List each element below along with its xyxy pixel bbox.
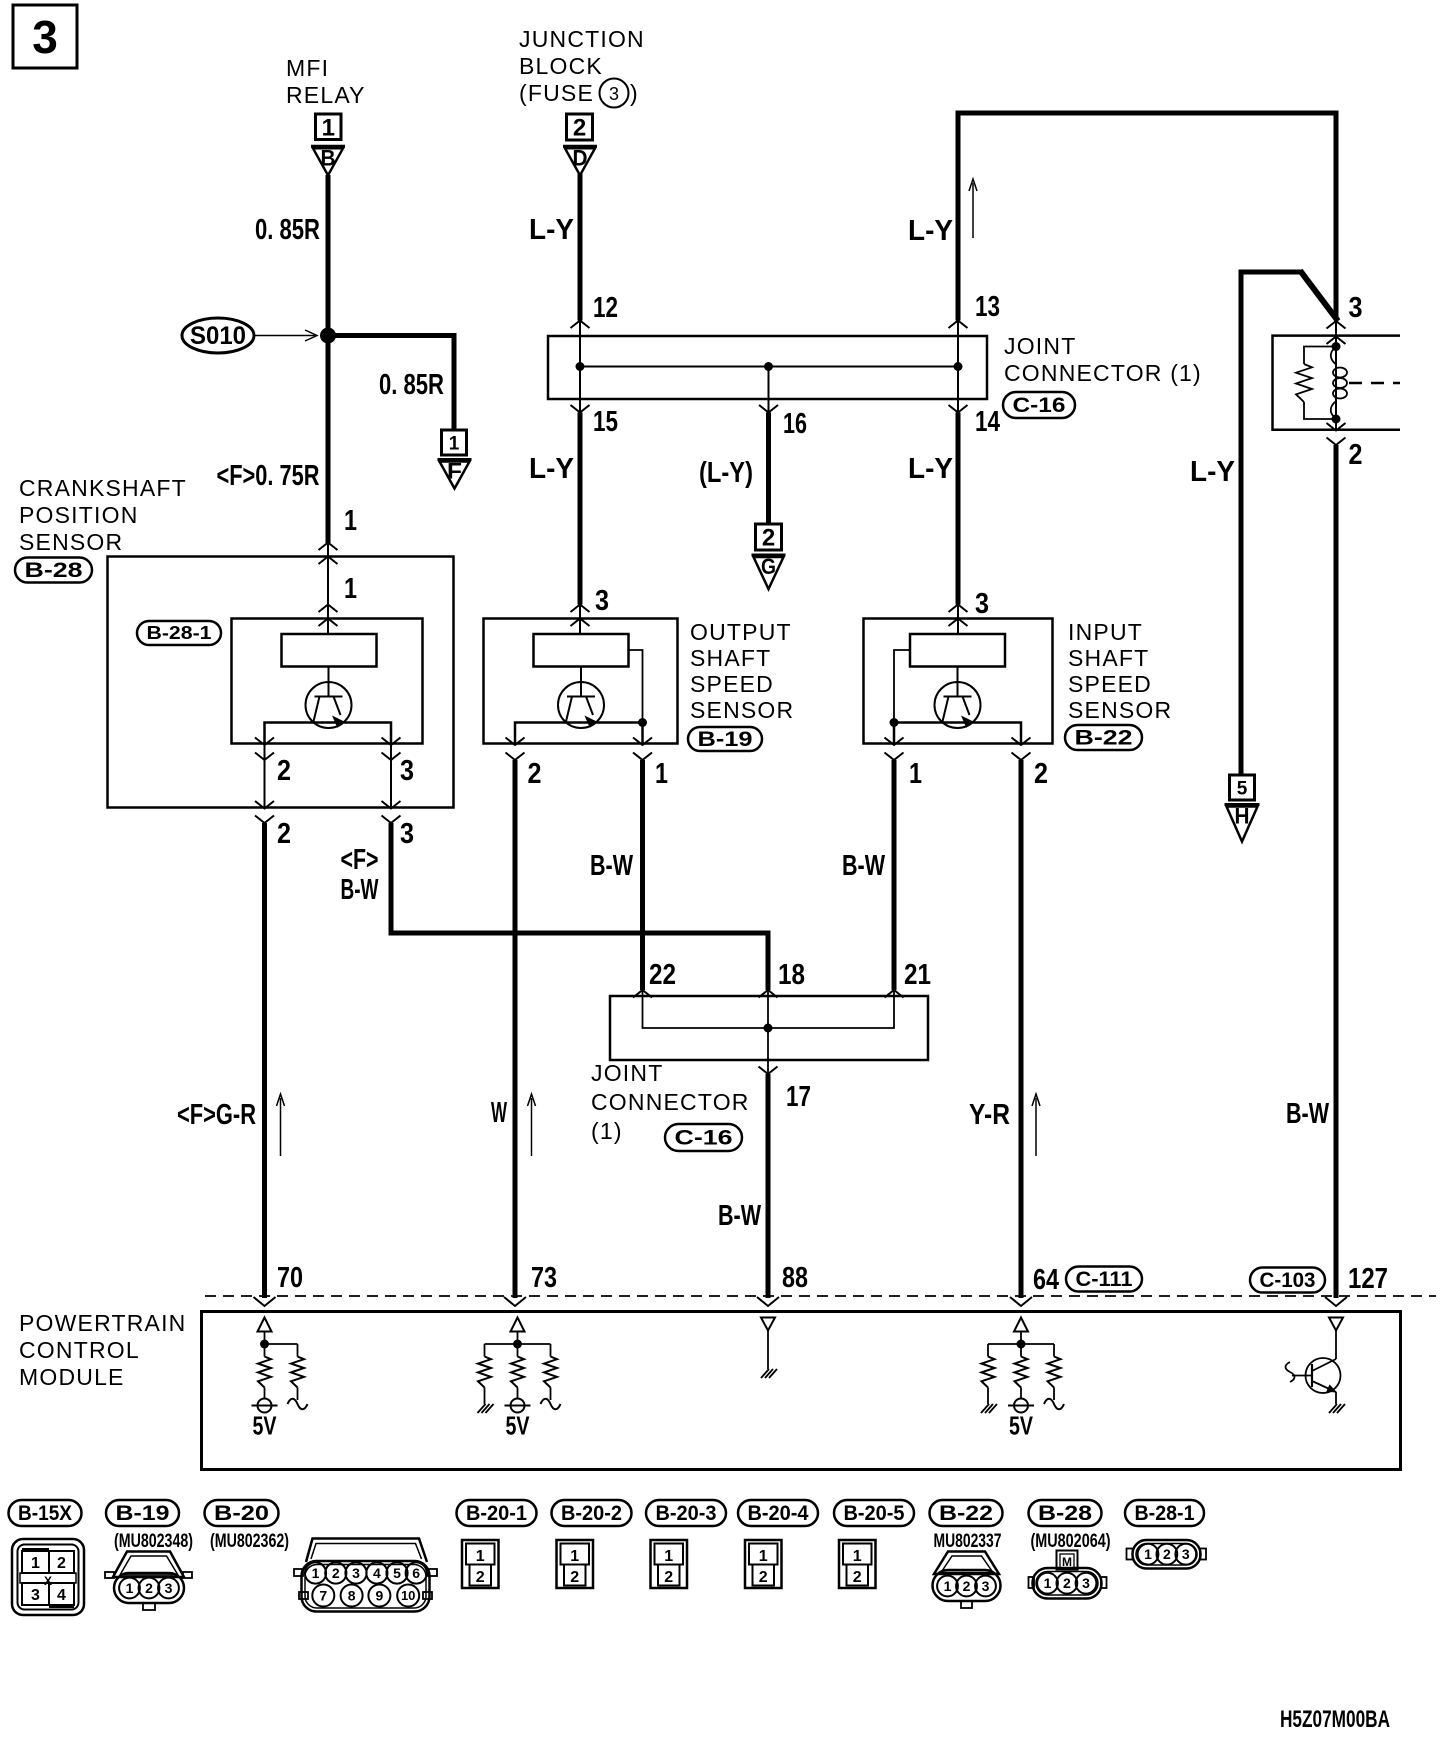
- svg-text:B-20-4: B-20-4: [748, 1502, 809, 1525]
- svg-text:1: 1: [1044, 1575, 1052, 1591]
- solenoid internal wire: [1335, 321, 1337, 430]
- svg-text:2: 2: [277, 755, 291, 787]
- B-20-3 pill and face view: [646, 1500, 726, 1526]
- svg-text:64: 64: [1033, 1264, 1059, 1296]
- wire B-W output pin1 to JC2 pin 22: [640, 760, 645, 990]
- pin 2 chevrons at B-28-1 bottom: [255, 738, 274, 746]
- pin 127 chevron: [1325, 1297, 1347, 1306]
- svg-text:2: 2: [57, 1555, 66, 1572]
- joint connector (1) C-16 lower box: [610, 996, 928, 1060]
- MFI relay triangle B: [311, 145, 345, 175]
- OUTPUT SHAFT SPEED SENSOR caption: [690, 619, 794, 723]
- svg-text:2: 2: [332, 1565, 340, 1581]
- junction dot pin1 (B-22): [890, 718, 899, 727]
- JOINT CONNECTOR (1) caption (lower): [591, 1060, 750, 1144]
- svg-text:1: 1: [322, 114, 335, 141]
- B-20-2 pill and face view: [552, 1500, 632, 1526]
- wire B-W input pin1 to JC2 pin 21: [892, 760, 897, 990]
- pin 1 chevrons at B-28-1 inner box top: [319, 605, 338, 613]
- svg-text:(MU802064): (MU802064): [1031, 1531, 1111, 1552]
- junction block triangle D: [563, 145, 597, 175]
- wire L-Y riser to JC1 pin 13 and top feed: [958, 113, 1336, 321]
- svg-text:73: 73: [531, 1262, 557, 1294]
- svg-text:B-19: B-19: [698, 728, 753, 751]
- svg-text:SENSOR: SENSOR: [19, 529, 123, 555]
- pin 3 chevrons at B-22 box top: [949, 605, 968, 613]
- svg-text:G: G: [761, 554, 776, 579]
- PCM pin127 driver transistor Q: [1286, 1318, 1346, 1414]
- sensor internal bottom wire (B-19): [515, 723, 643, 744]
- svg-text:1: 1: [570, 1548, 579, 1565]
- JC1 bus dot right: [954, 362, 963, 371]
- svg-text:MU802337: MU802337: [934, 1531, 1002, 1552]
- MFI relay connector box 1: [316, 114, 342, 141]
- svg-text:17: 17: [786, 1081, 811, 1113]
- svg-text:L-Y: L-Y: [529, 214, 574, 246]
- B-15X pill: [9, 1500, 82, 1526]
- connector B-28-1 face view: [1127, 1540, 1207, 1569]
- triangle F: [438, 459, 472, 489]
- C-103 pill: [1250, 1268, 1325, 1293]
- svg-text:B-19: B-19: [116, 1502, 170, 1525]
- pin 13 chevron: [949, 321, 968, 329]
- svg-text:1: 1: [344, 573, 357, 605]
- svg-text:MFI: MFI: [286, 55, 329, 81]
- PCM interface dashed line: [205, 1295, 1436, 1297]
- joint connector (1) C-16 box: [548, 336, 987, 399]
- flow arrow (up) next to riser: [969, 179, 977, 238]
- wire W output pin2 to PCM pin 73: [513, 760, 518, 1298]
- svg-text:1: 1: [664, 1548, 673, 1565]
- svg-text:B: B: [321, 145, 336, 170]
- svg-text:SHAFT: SHAFT: [690, 645, 771, 671]
- svg-text:(1): (1): [591, 1118, 623, 1144]
- pin 3 chevrons at B-28-1 bottom: [382, 738, 401, 746]
- crankshaft position sensor B-28 outer box: [108, 557, 454, 808]
- triangle G: [752, 554, 786, 589]
- svg-text:B-28-1: B-28-1: [147, 623, 212, 643]
- B-28-1 pill: [137, 621, 221, 645]
- svg-text:L-Y: L-Y: [908, 453, 953, 485]
- svg-text:B-20-2: B-20-2: [561, 1502, 622, 1525]
- svg-text:Y-R: Y-R: [969, 1099, 1010, 1131]
- svg-text:(MU802362): (MU802362): [210, 1531, 289, 1552]
- PCM pin64 input network with 5V reference and ground: [981, 1318, 1064, 1441]
- svg-text:1: 1: [655, 758, 668, 790]
- hall sensor symbol (B-19): [558, 682, 604, 728]
- svg-text:21: 21: [904, 959, 931, 991]
- svg-text:B-28: B-28: [1038, 1502, 1092, 1525]
- svg-text:5: 5: [393, 1565, 401, 1581]
- JC1 internal bus line: [579, 366, 958, 368]
- connector B-22 face view: [933, 1552, 1001, 1609]
- pin 3 chevrons at solenoid box top: [1327, 321, 1346, 329]
- sensor internal bottom wire (B-22): [894, 723, 1021, 744]
- svg-text:3: 3: [32, 11, 58, 63]
- svg-text:2: 2: [145, 1580, 153, 1596]
- svg-text:JOINT: JOINT: [591, 1060, 663, 1086]
- POWERTRAIN CONTROL MODULE caption: [19, 1310, 186, 1390]
- wire pin3 inside B-22: [957, 605, 959, 635]
- svg-text:1: 1: [944, 1578, 952, 1594]
- flow arrow (up) Y-R: [1032, 1094, 1040, 1156]
- svg-text:SENSOR: SENSOR: [690, 697, 794, 723]
- svg-text:CONNECTOR: CONNECTOR: [591, 1089, 750, 1115]
- svg-text:0. 85R: 0. 85R: [379, 369, 444, 401]
- sensor element block (B-19): [534, 634, 629, 667]
- pin 2 wire between boxes: [264, 745, 266, 808]
- connector box 1 (to F): [442, 430, 467, 455]
- svg-text:POSITION: POSITION: [19, 502, 139, 528]
- wire element to sensor circle (B-19): [580, 667, 582, 698]
- output shaft speed sensor B-19 box: [484, 619, 678, 744]
- JC1 bus dot mid: [764, 362, 773, 371]
- solenoid bottom dot: [1332, 415, 1341, 424]
- MFI RELAY caption: [286, 55, 366, 108]
- svg-text:B-W: B-W: [341, 874, 379, 906]
- solenoid dashed actuator link: [1349, 382, 1400, 385]
- svg-text:SENSOR: SENSOR: [1068, 697, 1172, 723]
- powertrain control module box: [202, 1312, 1401, 1470]
- pin 1 chevrons at B-22 bottom: [885, 738, 904, 746]
- wire L-Y from JC1 pin15 to output shaft speed sensor pin 3: [578, 413, 583, 605]
- sensor element block (B-22): [910, 634, 1005, 667]
- B-22 pill (legend): [930, 1500, 1003, 1526]
- svg-text:1: 1: [909, 758, 922, 790]
- JC2 internal wires: [643, 990, 895, 1028]
- svg-text:1: 1: [312, 1565, 320, 1581]
- svg-text:B-28-1: B-28-1: [1135, 1502, 1195, 1525]
- svg-text:1: 1: [759, 1548, 768, 1565]
- wire label <F> B-W: [341, 844, 379, 906]
- svg-text:<F>G-R: <F>G-R: [177, 1099, 256, 1131]
- svg-text:18: 18: [778, 959, 805, 991]
- pin 18 chevron: [759, 990, 778, 998]
- svg-text:3: 3: [1349, 292, 1363, 324]
- svg-text:L-Y: L-Y: [1190, 456, 1235, 488]
- svg-text:B-20: B-20: [214, 1502, 269, 1525]
- pin 16 chevron: [759, 405, 778, 413]
- connector B-19 face view: [105, 1552, 192, 1611]
- pin 88 chevron: [757, 1297, 779, 1306]
- svg-text:2: 2: [759, 1569, 768, 1586]
- svg-text:H5Z07M00BA: H5Z07M00BA: [1280, 1706, 1390, 1733]
- svg-text:SPEED: SPEED: [1068, 671, 1152, 697]
- svg-text:D: D: [573, 145, 588, 170]
- junction dot pin1 (B-19): [638, 718, 647, 727]
- pin 3 chevrons at B-19 box top: [571, 605, 590, 613]
- svg-text:16: 16: [783, 408, 807, 440]
- pin 3 wire between boxes: [390, 745, 392, 808]
- wire B-W JC2 pin17 to PCM pin 88: [766, 1074, 771, 1298]
- pin 70 chevron: [254, 1297, 276, 1306]
- svg-text:3: 3: [1182, 1546, 1190, 1562]
- solenoid coil loops: [1331, 347, 1347, 420]
- pin 3 chevrons at B-28 outer bottom: [382, 801, 401, 809]
- svg-text:POWERTRAIN: POWERTRAIN: [19, 1310, 186, 1336]
- svg-text:5V: 5V: [1009, 1411, 1033, 1441]
- pin 15 chevron: [571, 405, 590, 413]
- wire 0.75R from splice to crankshaft position sensor: [326, 336, 331, 544]
- connector B-15X face view: [12, 1539, 84, 1615]
- svg-text:0. 85R: 0. 85R: [255, 214, 320, 246]
- svg-text:1: 1: [449, 433, 460, 454]
- B-20-4 pill and face view: [738, 1500, 818, 1526]
- svg-text:3: 3: [1082, 1575, 1090, 1591]
- svg-text:22: 22: [649, 959, 676, 991]
- B-20-1 pill and face view: [457, 1500, 537, 1526]
- pin 21 chevron: [885, 990, 904, 998]
- svg-text:2: 2: [277, 818, 291, 850]
- svg-text:B-20-1: B-20-1: [466, 1502, 527, 1525]
- connector B-20 face view: [294, 1539, 437, 1612]
- pin 2 chevrons at solenoid box bottom: [1327, 423, 1346, 431]
- pin 22 chevron: [633, 990, 652, 998]
- junction dot S010: [320, 328, 336, 344]
- svg-text:B-W: B-W: [718, 1200, 761, 1232]
- junction block connector box 2: [567, 114, 593, 142]
- B-20-5 pill and face view: [834, 1500, 914, 1526]
- wire element to sensor circle (B-28): [328, 667, 330, 698]
- element tap wire to pin1 (B-22): [894, 650, 910, 723]
- svg-text:3: 3: [165, 1580, 173, 1596]
- svg-text:6: 6: [412, 1565, 420, 1581]
- INPUT SHAFT SPEED SENSOR caption: [1068, 619, 1172, 723]
- svg-text:CRANKSHAFT: CRANKSHAFT: [19, 475, 187, 501]
- svg-text:JOINT: JOINT: [1004, 333, 1076, 359]
- pin 1 chevrons at B-19 bottom: [633, 738, 652, 746]
- svg-text:5V: 5V: [253, 1411, 277, 1441]
- wire pin3 inside B-19: [579, 605, 581, 635]
- svg-text:F: F: [447, 459, 462, 484]
- svg-text:B-22: B-22: [1075, 727, 1133, 750]
- svg-text:5: 5: [1237, 778, 1248, 799]
- PCM pin88 internal ground: [761, 1318, 777, 1379]
- svg-text:BLOCK: BLOCK: [519, 53, 603, 79]
- pin 2 chevrons at B-22 bottom: [1012, 738, 1031, 746]
- svg-text:88: 88: [782, 1262, 808, 1294]
- svg-text:2: 2: [570, 1569, 579, 1586]
- wire L-Y diagonal feed to solenoid pin 3: [1241, 272, 1302, 775]
- svg-text:C-16: C-16: [675, 1127, 733, 1150]
- B-22 pill: [1065, 725, 1142, 750]
- svg-text:1: 1: [476, 1548, 485, 1565]
- svg-text:L-Y: L-Y: [908, 215, 953, 247]
- pin 2 chevrons at B-28 outer bottom: [255, 801, 274, 809]
- svg-text:1: 1: [1144, 1546, 1152, 1562]
- splice S010 symbol: [182, 318, 254, 353]
- JC1 pin13-14 internal wire: [957, 321, 959, 414]
- C-111 pill: [1066, 1267, 1142, 1292]
- svg-text:9: 9: [376, 1588, 384, 1604]
- svg-text:2: 2: [762, 525, 775, 552]
- JUNCTION BLOCK caption: [519, 26, 645, 108]
- wire L-Y from JC1 pin14 to input shaft speed sensor pin 3: [956, 413, 961, 605]
- B-28-1 inner box: [232, 619, 423, 744]
- svg-text:(FUSE: (FUSE: [519, 80, 594, 106]
- connector box 2 (to G): [756, 524, 782, 552]
- svg-text:H: H: [1235, 804, 1250, 829]
- svg-text:INPUT: INPUT: [1068, 619, 1143, 645]
- flow arrow (up) G-R: [277, 1094, 285, 1156]
- C-16 pill (lower): [665, 1124, 742, 1151]
- B-19 pill: [106, 1500, 179, 1526]
- svg-text:7: 7: [319, 1588, 327, 1604]
- CRANKSHAFT POSITION SENSOR caption: [19, 475, 187, 555]
- JC1 pin12-15 internal wire: [579, 321, 581, 414]
- svg-text:1: 1: [126, 1580, 134, 1596]
- svg-text:RELAY: RELAY: [286, 82, 366, 108]
- JC2 bus dot: [764, 1024, 773, 1033]
- JOINT CONNECTOR (1) caption: [1004, 333, 1202, 386]
- pin 64 chevron: [1010, 1297, 1032, 1306]
- svg-text:3: 3: [31, 1587, 40, 1604]
- svg-text:SPEED: SPEED: [690, 671, 774, 697]
- svg-text:70: 70: [277, 1262, 303, 1294]
- B-28-1 pill (legend): [1125, 1500, 1204, 1526]
- svg-text:2: 2: [528, 758, 542, 790]
- svg-text:B-20-5: B-20-5: [844, 1502, 905, 1525]
- svg-text:B-W: B-W: [1286, 1098, 1329, 1130]
- pin 17 chevron: [759, 1067, 778, 1075]
- svg-text:10: 10: [401, 1588, 415, 1603]
- svg-text:S010: S010: [190, 322, 246, 350]
- B-20 pill: [205, 1500, 279, 1526]
- wire pin1 inside B-28: [327, 543, 329, 634]
- svg-text:1: 1: [31, 1555, 40, 1572]
- svg-text:4: 4: [57, 1587, 66, 1604]
- svg-text:15: 15: [593, 406, 618, 438]
- svg-text:C-16: C-16: [1013, 394, 1066, 417]
- PCM pin70 pull-up network with 5V reference: [252, 1318, 308, 1441]
- svg-text:3: 3: [595, 585, 609, 617]
- svg-text:L-Y: L-Y: [529, 453, 574, 485]
- svg-text:SHAFT: SHAFT: [1068, 645, 1149, 671]
- svg-text:8: 8: [348, 1588, 356, 1604]
- C-16 pill (top): [1003, 392, 1075, 418]
- svg-text:3: 3: [975, 588, 989, 620]
- svg-text:2: 2: [1349, 439, 1363, 471]
- B-28 pill: [15, 558, 92, 583]
- svg-text:B-28: B-28: [25, 559, 83, 582]
- wire 0.85R from MFI relay to splice S010: [326, 175, 331, 336]
- svg-text:2: 2: [1034, 758, 1048, 790]
- svg-text:2: 2: [664, 1569, 673, 1586]
- B-19 pill: [688, 727, 762, 751]
- page number box 3: [13, 5, 77, 68]
- svg-text:5V: 5V: [506, 1411, 530, 1441]
- svg-text:1: 1: [853, 1548, 862, 1565]
- svg-text:CONNECTOR (1): CONNECTOR (1): [1004, 360, 1202, 386]
- svg-text:(MU802348): (MU802348): [114, 1531, 193, 1552]
- svg-text:B-22: B-22: [939, 1502, 993, 1525]
- pin 2 chevrons at B-19 bottom: [506, 738, 525, 746]
- svg-text:3: 3: [352, 1565, 360, 1581]
- connector box 5 (to H): [1230, 775, 1255, 800]
- svg-text:12: 12: [593, 292, 618, 324]
- solenoid resistor branch: [1304, 347, 1336, 365]
- JC1 pin16 internal wire: [768, 367, 770, 414]
- S010 pointer arrow: [255, 330, 317, 341]
- svg-text:3: 3: [400, 755, 414, 787]
- sensor element block (B-28): [282, 634, 377, 667]
- svg-text:3: 3: [400, 818, 414, 850]
- flow arrow (up) W: [528, 1094, 536, 1156]
- wire element to sensor circle (B-22): [957, 667, 959, 698]
- svg-text:C-111: C-111: [1076, 1268, 1133, 1291]
- B-28 pill (legend): [1029, 1500, 1102, 1526]
- solenoid box (partial): [1273, 336, 1401, 430]
- connector B-28 face view: [1029, 1551, 1107, 1599]
- wire B-W crankshaft pin3 to JC2 pin 18: [391, 823, 768, 990]
- hall sensor symbol (B-22): [935, 682, 981, 728]
- svg-text:2: 2: [573, 115, 586, 142]
- wire B-W from solenoid pin 2 to PCM pin 127: [1334, 445, 1339, 1298]
- svg-text:JUNCTION: JUNCTION: [519, 26, 645, 52]
- solenoid top dot: [1332, 342, 1341, 351]
- svg-text:C-103: C-103: [1260, 1269, 1316, 1292]
- triangle H: [1225, 804, 1260, 842]
- svg-text:14: 14: [975, 406, 1000, 438]
- PCM pin73 input network with 5V reference and ground: [478, 1318, 561, 1441]
- svg-text:): ): [630, 80, 638, 106]
- wire G-R crankshaft pin2 to PCM pin 70: [262, 823, 267, 1298]
- sensor internal bottom wire (B-28): [265, 723, 392, 744]
- pin 14 chevron: [949, 405, 968, 413]
- svg-text:4: 4: [373, 1565, 381, 1581]
- svg-text:B-15X: B-15X: [18, 1502, 72, 1525]
- svg-text:B-W: B-W: [590, 850, 633, 882]
- wire L-Y from junction block to joint connector C-16 pin 12: [578, 174, 583, 321]
- wire branch 0.85R to F: [328, 336, 454, 431]
- wire Y-R input pin2 to PCM pin 64: [1019, 760, 1024, 1298]
- pin 73 chevron: [504, 1297, 526, 1306]
- svg-text:2: 2: [1063, 1575, 1071, 1591]
- svg-text:W: W: [491, 1097, 507, 1129]
- svg-text:CONTROL: CONTROL: [19, 1337, 140, 1363]
- svg-text:<F>0. 75R: <F>0. 75R: [217, 460, 320, 492]
- svg-text:13: 13: [975, 291, 1000, 323]
- wire (L-Y) from JC1 pin16 to ground G: [766, 413, 771, 525]
- svg-text:B-20-3: B-20-3: [656, 1502, 717, 1525]
- svg-text:2: 2: [853, 1569, 862, 1586]
- svg-text:2: 2: [476, 1569, 485, 1586]
- svg-text:MODULE: MODULE: [19, 1364, 125, 1390]
- svg-text:<F>: <F>: [341, 844, 379, 876]
- svg-text:1: 1: [344, 505, 357, 537]
- svg-text:2: 2: [1163, 1546, 1171, 1562]
- pin 12 chevron: [571, 321, 590, 329]
- svg-text:3: 3: [609, 84, 619, 104]
- element tap wire to pin1 (B-19): [629, 650, 643, 723]
- JC1 bus dot left: [576, 362, 585, 371]
- pin 1 chevrons at B-28 outer box top: [319, 543, 338, 551]
- svg-text:(L-Y): (L-Y): [699, 457, 753, 489]
- svg-text:3: 3: [982, 1578, 990, 1594]
- svg-text:B-W: B-W: [842, 850, 885, 882]
- svg-text:OUTPUT: OUTPUT: [690, 619, 792, 645]
- hall sensor symbol (B-28): [306, 682, 352, 728]
- svg-text:127: 127: [1348, 1263, 1388, 1295]
- svg-text:2: 2: [963, 1578, 971, 1594]
- input shaft speed sensor B-22 box: [864, 619, 1053, 744]
